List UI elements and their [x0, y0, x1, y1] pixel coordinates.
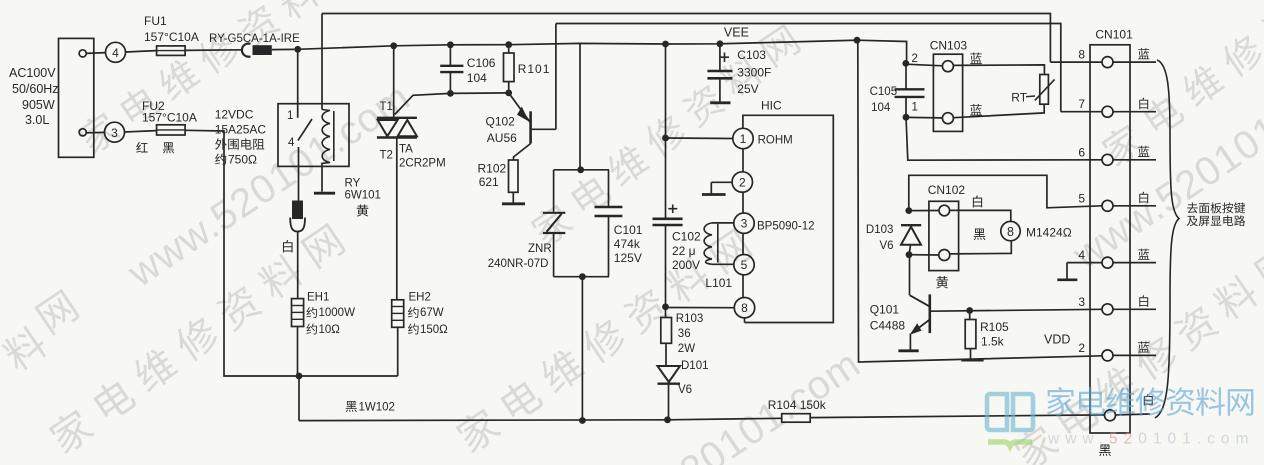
wire triac gate: [395, 93, 509, 115]
label black: [974, 229, 986, 241]
diode D101: [658, 366, 681, 420]
pin 8 CN101: [1078, 48, 1156, 68]
wire top rail 1 (relay coil to CN101 pin8): [322, 14, 1050, 63]
pin 2: [732, 172, 752, 192]
svg-text:TA: TA: [399, 144, 413, 156]
heater EH2: [392, 300, 404, 376]
svg-text:BP5090-12: BP5090-12: [757, 221, 815, 233]
label C105 104: [870, 86, 898, 114]
connector CN102: [928, 183, 966, 271]
svg-text:905W: 905W: [22, 98, 55, 112]
pin 6 CN101: [1078, 145, 1156, 165]
svg-text:RY: RY: [345, 178, 361, 190]
svg-text:VDD: VDD: [1044, 333, 1070, 347]
capacitor C106: [440, 41, 463, 96]
capacitor C102: [653, 41, 683, 307]
svg-text:2W: 2W: [678, 343, 695, 355]
thermal cutout (relay pin 4 wire): [290, 166, 305, 298]
svg-text:1W102: 1W102: [359, 402, 395, 414]
svg-text:R101: R101: [518, 62, 551, 76]
pin 2 CN103: [906, 53, 954, 72]
svg-text:3: 3: [741, 217, 748, 231]
svg-text:1: 1: [287, 110, 293, 122]
wire FU1 to relay contact: [185, 49, 241, 52]
label wire color pin 4: [1138, 249, 1149, 260]
label wire color pin 5: [1139, 192, 1148, 204]
label relay specs: [215, 108, 267, 137]
svg-text:L101: L101: [705, 276, 732, 290]
svg-text:M1424Ω: M1424Ω: [1026, 226, 1072, 240]
svg-text:6W101: 6W101: [345, 190, 381, 202]
svg-text:V6: V6: [880, 240, 894, 252]
svg-text:8: 8: [1078, 48, 1085, 62]
svg-text:RT: RT: [1011, 91, 1027, 105]
svg-text:FU1: FU1: [144, 14, 167, 28]
transistor Q101 C4488: [910, 255, 1103, 350]
relay RY 6W101: [278, 14, 349, 167]
svg-text:67W: 67W: [420, 307, 444, 319]
svg-text:R103: R103: [676, 313, 704, 325]
node D103 anode: [906, 251, 913, 258]
svg-text:EH1: EH1: [307, 292, 329, 304]
svg-text:CN101: CN101: [1095, 28, 1133, 42]
label wire color pin 2: [1138, 341, 1149, 352]
svg-text:10Ω: 10Ω: [319, 324, 341, 336]
node D103 cathode: [905, 207, 912, 214]
svg-text:7: 7: [1078, 97, 1085, 111]
wire bottom rail (black): [299, 415, 1105, 421]
svg-text:50/60Hz: 50/60Hz: [12, 82, 59, 96]
AC plug connector box: [59, 38, 94, 157]
svg-text:2: 2: [739, 176, 746, 190]
terminal 4: [86, 42, 125, 62]
svg-text:200V: 200V: [672, 258, 700, 272]
svg-text:AU56: AU56: [487, 131, 517, 145]
svg-text:1: 1: [740, 132, 747, 146]
svg-text:104: 104: [871, 102, 891, 114]
label EH2: [409, 292, 431, 304]
node L (bus start): [294, 46, 301, 53]
svg-text:150Ω: 150Ω: [420, 324, 448, 336]
ground (R102): [502, 202, 525, 205]
pin 2 CN101: [1078, 341, 1156, 361]
svg-text:36: 36: [678, 328, 691, 340]
wire to CN101 pin6: [906, 117, 1102, 160]
svg-text:C102: C102: [672, 230, 701, 244]
svg-text:3.0L: 3.0L: [25, 113, 49, 127]
resistor R102: [509, 160, 519, 203]
label EH1: [307, 292, 329, 304]
wire pin1 to C102: [666, 137, 733, 140]
wire to bottom rail: [298, 376, 300, 421]
node AC input label: [9, 66, 59, 127]
pin 2 CN102: [909, 250, 950, 261]
label R102 621: [478, 162, 507, 190]
connector CN101: [1090, 28, 1133, 434]
svg-text:R102: R102: [478, 162, 507, 176]
pin 1 CN101: [1105, 410, 1151, 421]
svg-text:8: 8: [1007, 225, 1014, 239]
wire rail1 to pin 8: [1050, 61, 1102, 63]
label yellow: [936, 276, 948, 288]
wire top rail 2 (Q102 base to CN101 pin7): [556, 24, 1061, 112]
ground (Q101 emitter): [898, 349, 918, 352]
svg-text:621: 621: [479, 175, 499, 189]
svg-text:C4488: C4488: [870, 319, 906, 333]
svg-text:4: 4: [288, 137, 295, 149]
label Q101 C4488: [870, 303, 906, 333]
ground (CN101 pin4): [1057, 263, 1102, 280]
pin 1 CN103: [906, 102, 953, 124]
label R103 36 2W: [676, 313, 704, 355]
wire VDD: [854, 37, 1102, 362]
wire snubber bottom: [554, 273, 609, 424]
resistor R101: [504, 41, 515, 96]
label black (CN101 bottom): [1099, 445, 1111, 457]
node HIC pin1 junction: [662, 135, 669, 142]
label T1 T2 TA: [380, 101, 446, 170]
wire rail2 to pin 7: [1061, 111, 1102, 113]
pin 8: [734, 298, 754, 318]
svg-text:2CR2PM: 2CR2PM: [399, 158, 446, 170]
svg-text:AC100V: AC100V: [9, 66, 56, 80]
label ZNR 240NR-07D: [488, 243, 552, 270]
svg-text:Q101: Q101: [870, 303, 900, 317]
label wire color pin 1: [1144, 394, 1153, 406]
svg-text:VEE: VEE: [724, 26, 749, 40]
svg-text:750Ω: 750Ω: [228, 153, 257, 167]
svg-text:EH2: EH2: [409, 292, 431, 304]
svg-text:12VDC: 12VDC: [215, 108, 254, 122]
label RT: [1011, 91, 1035, 105]
node R103 junction: [662, 303, 669, 310]
svg-text:C105: C105: [870, 86, 898, 98]
svg-text:5: 5: [1078, 191, 1085, 205]
svg-text:CN103: CN103: [930, 39, 968, 53]
svg-text:Q102: Q102: [486, 115, 516, 129]
wire FU2 to heater line: [185, 130, 398, 376]
svg-text:15A25AC: 15A25AC: [215, 123, 267, 137]
pin 1 CN102: [909, 205, 950, 216]
label blue: [970, 53, 982, 65]
motor M 1424ohm: [950, 210, 1021, 254]
svg-text:www.520101.com: www.520101.com: [1047, 431, 1254, 448]
label white: [973, 195, 982, 207]
resistor R105: [961, 307, 983, 360]
label C102 22u 200V: [672, 230, 701, 273]
svg-text:R104 150k: R104 150k: [768, 398, 827, 412]
svg-text:5: 5: [741, 258, 748, 272]
decorative logo (site watermark): [987, 387, 1254, 447]
svg-text:240NR-07D: 240NR-07D: [488, 258, 549, 270]
pin 3 CN101: [1078, 295, 1156, 315]
capacitor C103: [707, 40, 732, 101]
capacitor C101: [595, 170, 623, 277]
svg-text:3300F: 3300F: [737, 66, 771, 80]
label D101 V6: [678, 360, 709, 396]
svg-text:474k: 474k: [614, 237, 641, 251]
svg-text:6: 6: [1078, 145, 1085, 159]
label R105 1.5k: [980, 320, 1009, 349]
wire VEE bus: [298, 40, 907, 63]
ground (HIC pin2): [702, 182, 732, 194]
relay contact connector RY-G5CA-1A-IRE: [209, 33, 300, 57]
resistor R103: [661, 307, 672, 366]
brace to panel: [1155, 60, 1179, 418]
op-amp U1 HIC BP5090-12 module: [743, 99, 833, 323]
svg-text:C106: C106: [467, 56, 496, 70]
svg-text:D103: D103: [866, 224, 894, 236]
label black 1W102: [346, 401, 357, 412]
label C106 104: [467, 56, 496, 85]
ground (C103): [710, 101, 730, 104]
svg-text:CN102: CN102: [928, 183, 966, 197]
svg-text:T1: T1: [380, 101, 393, 113]
svg-text:V6: V6: [678, 384, 692, 396]
pin 7 CN101: [1078, 97, 1156, 117]
label wire color pin 7: [1139, 98, 1148, 110]
thermistor RT: [953, 65, 1054, 118]
svg-text:104: 104: [467, 71, 487, 85]
svg-text:1.5k: 1.5k: [981, 335, 1005, 349]
label panel note: [1187, 202, 1245, 213]
svg-text:157°C10A: 157°C10A: [142, 111, 197, 125]
pin 1: [733, 128, 793, 148]
label black: [163, 142, 174, 153]
svg-text:RY-G5CA-1A-IRE: RY-G5CA-1A-IRE: [209, 33, 300, 45]
svg-text:4: 4: [1078, 248, 1085, 262]
svg-text:157°C10A: 157°C10A: [144, 30, 199, 44]
fuse FU1: [126, 14, 199, 55]
label wire color pin 3: [1139, 295, 1148, 307]
pin 5: [734, 255, 754, 275]
svg-text:8: 8: [741, 301, 748, 315]
heater EH1: [292, 299, 304, 376]
svg-text:2: 2: [1078, 341, 1085, 355]
label RY 6W101 yellow: [345, 178, 381, 202]
label wire color pin 6: [1138, 146, 1149, 157]
wire snubber top: [554, 43, 609, 173]
label C103 3300F 25V: [737, 48, 771, 96]
svg-text:125V: 125V: [614, 251, 642, 265]
triac TA 2CR2PM: [377, 42, 417, 299]
inductor L101: [704, 223, 734, 264]
node D101 bottom: [664, 416, 671, 423]
wire pin8 to R103: [666, 307, 735, 309]
diode D103: [901, 225, 921, 255]
capacitor C105: [895, 60, 925, 121]
svg-text:ZNR: ZNR: [528, 243, 552, 255]
label wire color pin 8: [1138, 48, 1149, 59]
node EH junction: [296, 373, 303, 380]
transistor Q102 AU56: [509, 24, 556, 161]
svg-text:C103: C103: [737, 48, 766, 62]
svg-text:3: 3: [111, 126, 118, 140]
svg-text:3: 3: [1078, 295, 1085, 309]
label white: [283, 240, 293, 252]
svg-text:1000W: 1000W: [319, 307, 356, 319]
fuse FU2: [125, 99, 197, 135]
terminal 3: [86, 122, 124, 142]
pin 4 CN101: [1078, 248, 1156, 268]
label D103 V6: [866, 224, 894, 252]
varistor ZNR 240NR-07D: [543, 170, 565, 277]
label red: [136, 142, 148, 153]
connector CN103: [930, 39, 968, 132]
svg-text:T2: T2: [380, 150, 393, 162]
svg-text:1: 1: [912, 102, 918, 114]
svg-text:22 μ: 22 μ: [672, 244, 696, 258]
label C101 474k 125V: [614, 223, 643, 265]
wire to CN101 pin5: [909, 175, 1102, 210]
svg-text:25V: 25V: [737, 82, 758, 96]
svg-text:R105: R105: [980, 320, 1009, 334]
svg-text:4: 4: [112, 46, 119, 60]
svg-text:D101: D101: [681, 360, 709, 372]
pin 5 CN101: [1078, 191, 1156, 211]
ground (relay coil): [314, 166, 335, 193]
svg-text:2: 2: [912, 53, 918, 65]
label blue: [970, 104, 982, 116]
pin 3: [734, 213, 815, 233]
svg-text:HIC: HIC: [761, 99, 782, 113]
label Q102 AU56: [486, 115, 518, 146]
svg-text:ROHM: ROHM: [758, 135, 793, 147]
svg-text:C101: C101: [614, 223, 643, 237]
resistor R104: [782, 414, 811, 423]
